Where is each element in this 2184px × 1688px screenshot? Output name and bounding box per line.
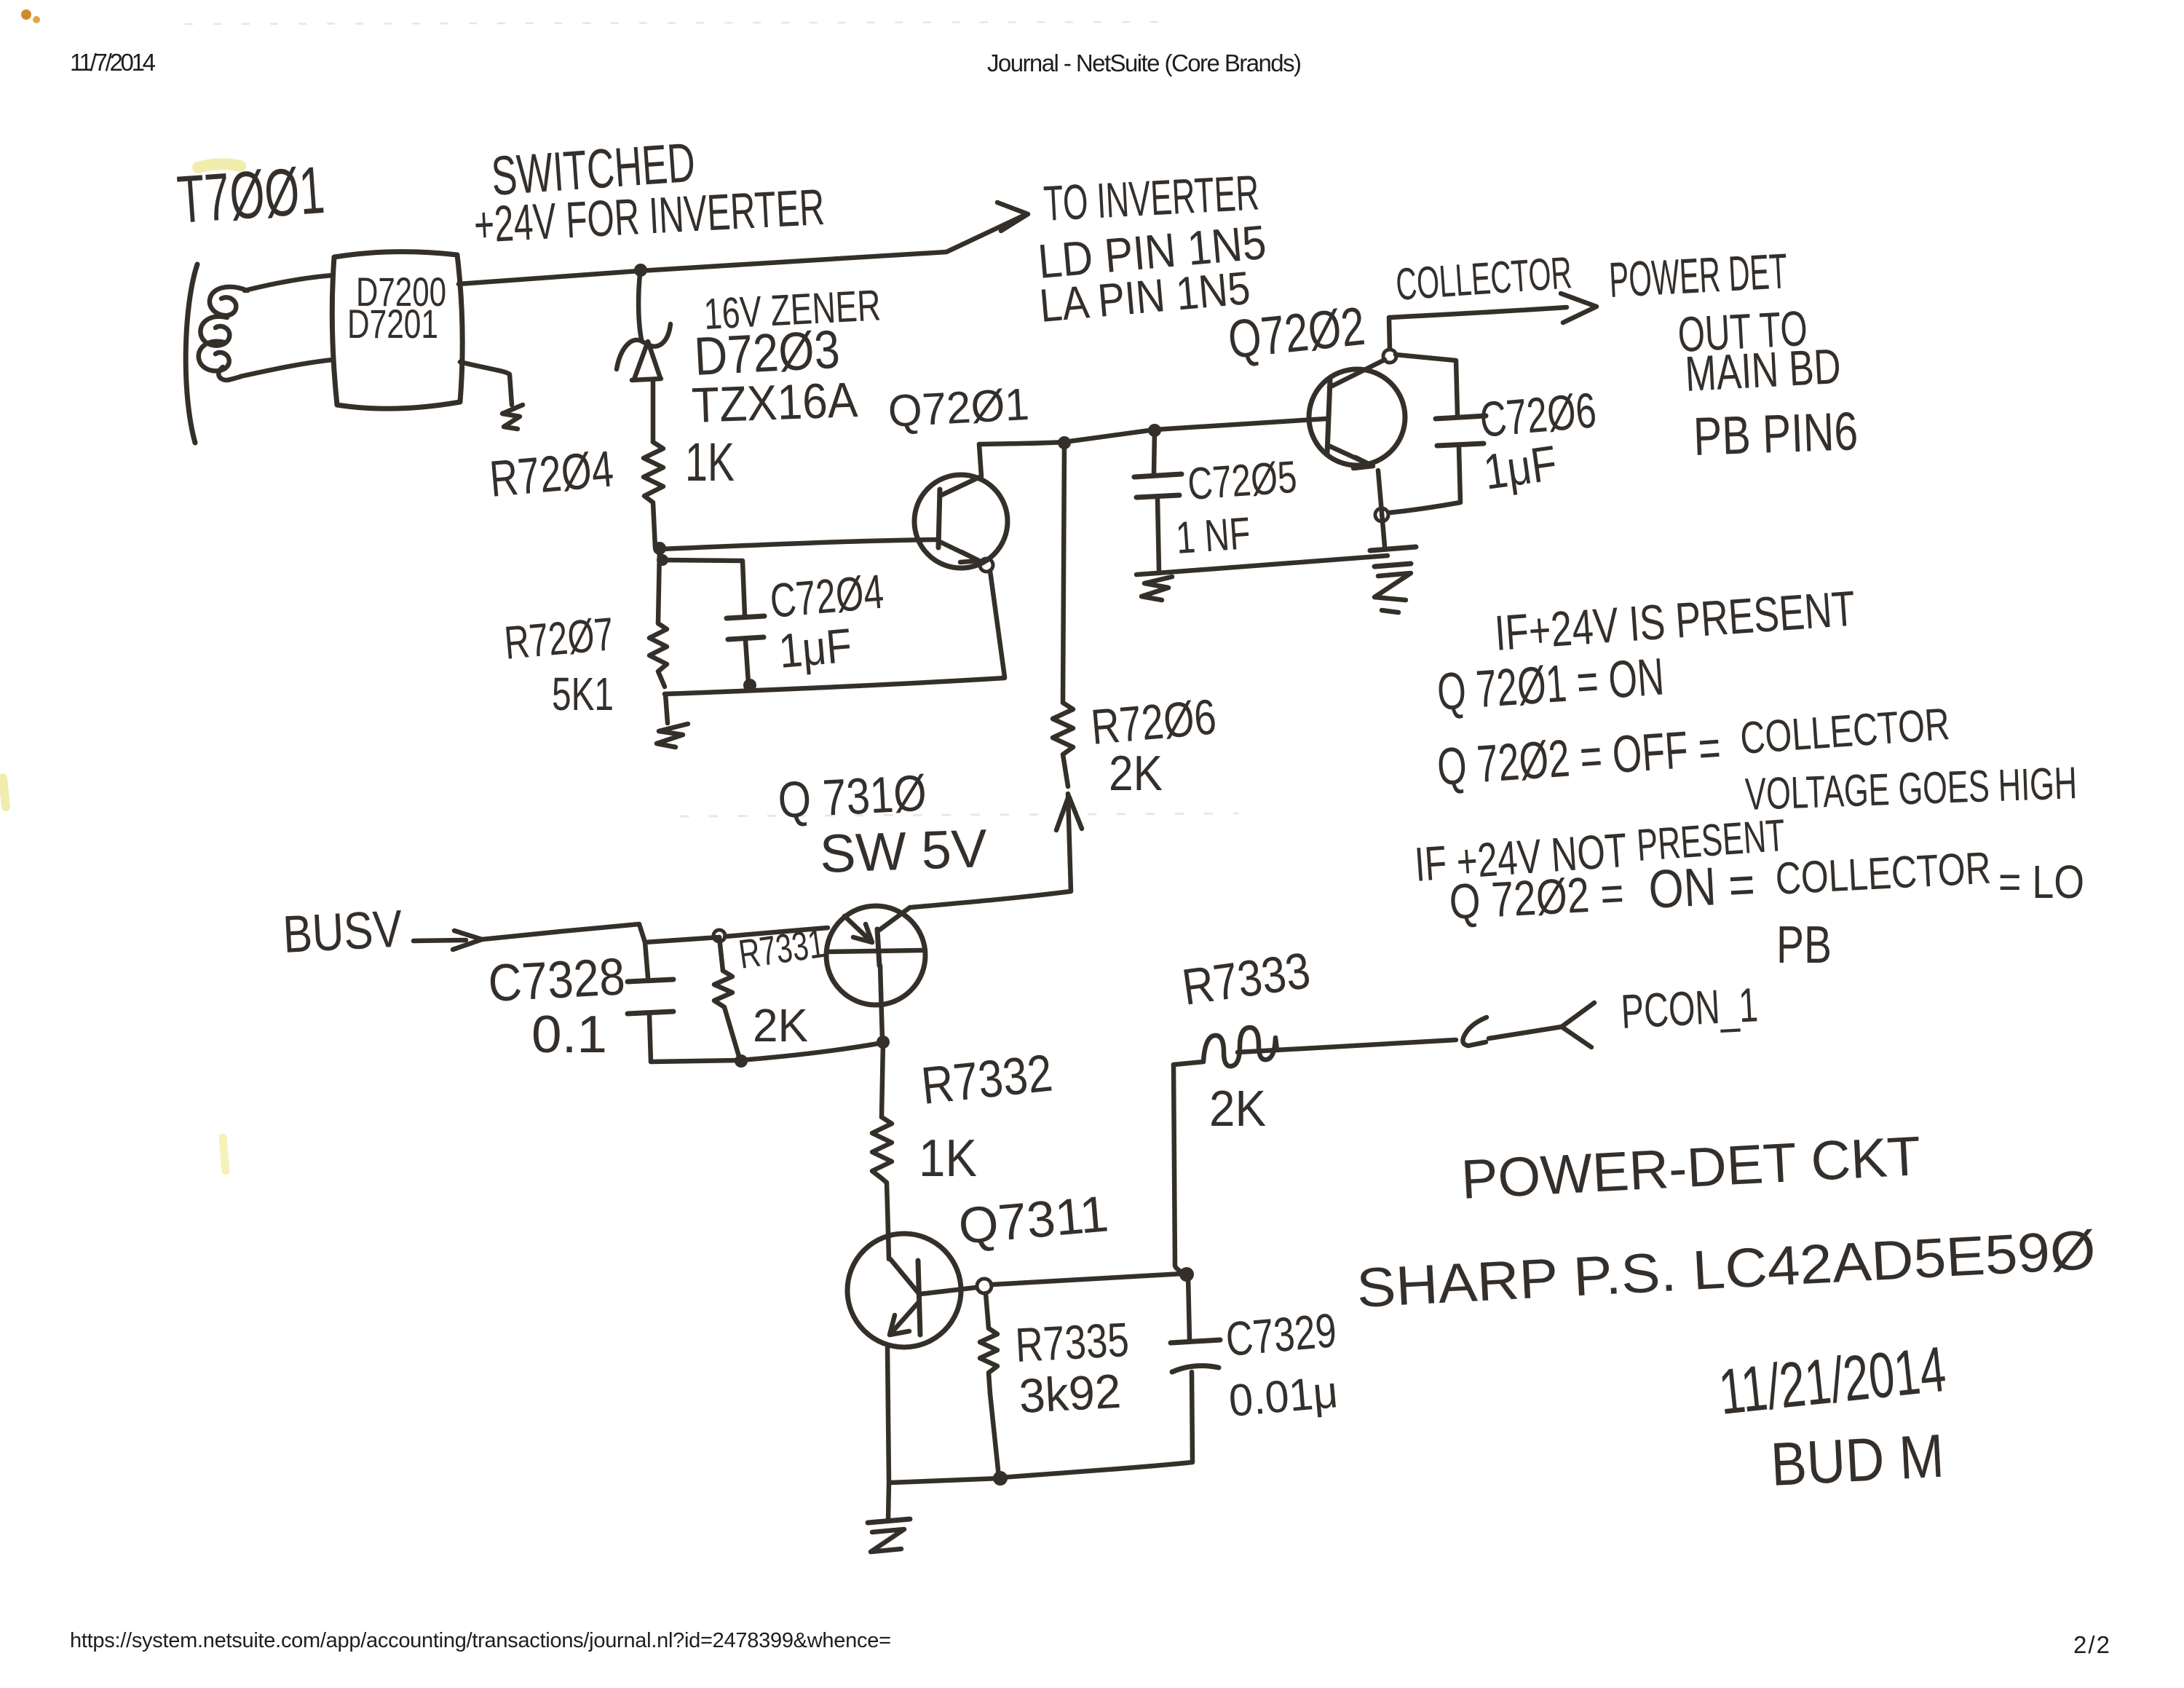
svg-text:1 NF: 1 NF — [1174, 508, 1252, 564]
transformer T7001 winding coil — [210, 287, 248, 315]
svg-text:Q 72Ø1 = ON: Q 72Ø1 = ON — [1436, 647, 1666, 722]
svg-text:POWER-DET CKT: POWER-DET CKT — [1460, 1125, 1923, 1211]
wire C7206 bottom to emitter — [1389, 447, 1460, 513]
transistor Q7202 body circle — [1309, 369, 1405, 465]
resistor R7332 zigzag — [872, 1117, 892, 1183]
wire node to R7207 — [658, 550, 660, 623]
svg-text:D7201: D7201 — [347, 301, 438, 347]
wire C7204 to bottom rail — [745, 640, 748, 683]
svg-text:T7ØØ1: T7ØØ1 — [175, 153, 327, 237]
svg-text:COLLECTOR: COLLECTOR — [1774, 843, 1992, 904]
svg-text:1μF: 1μF — [777, 618, 854, 678]
connector fork PCON_1 — [1562, 1003, 1594, 1047]
ground under Q7311 — [868, 1519, 910, 1523]
wire R7332 to Q7311 base — [887, 1183, 888, 1232]
transistor Q7310 base line — [828, 950, 922, 952]
resistor R7206 zigzag — [1053, 703, 1073, 786]
ground squiggle Q7311 — [871, 1529, 904, 1552]
capacitor C7328 plates — [628, 979, 673, 1014]
transistor Q7310 collector stroke — [879, 907, 910, 930]
wire Q7202 collector up and right — [1389, 307, 1567, 349]
svg-text:https://system.netsuite.com/ap: https://system.netsuite.com/app/accounti… — [70, 1629, 891, 1652]
wire Q7311 collector to R7333 junction — [992, 1274, 1183, 1285]
arrowhead BUSV — [453, 931, 482, 950]
node junction R7331 tap loop — [713, 930, 725, 942]
wire Q7311 emitter down — [887, 1348, 889, 1482]
node junction R7333 C7329 — [1179, 1267, 1194, 1282]
svg-text:BUSV: BUSV — [282, 900, 404, 964]
wire Q7202 emitter down — [1378, 470, 1385, 546]
svg-text:2K: 2K — [1209, 1080, 1266, 1137]
wire transformer top lead to diode block — [245, 275, 333, 291]
svg-text:11/21/2014: 11/21/2014 — [1716, 1333, 1950, 1428]
wire C7329 down and left — [1002, 1372, 1192, 1478]
wire R7331 stem — [719, 937, 723, 971]
svg-text:3k92: 3k92 — [1018, 1364, 1123, 1423]
highlighter smudge near T7001 — [198, 164, 240, 167]
wire C7205 ground rail — [1136, 556, 1388, 575]
wire to PCON connector — [1489, 1027, 1562, 1038]
zener diode D7203 anode triangle — [632, 342, 661, 380]
node junction R7206 tap — [1058, 436, 1071, 449]
transistor Q7201 collector stroke — [941, 444, 981, 495]
ground under R7207 — [657, 724, 688, 747]
transistor Q7201 base bar — [938, 489, 940, 548]
svg-text:11/7/2014: 11/7/2014 — [70, 49, 156, 76]
svg-text:TZX16A: TZX16A — [691, 372, 859, 433]
arrowhead collector to power det — [1561, 293, 1597, 323]
arrowhead up on R7206 wire — [1056, 796, 1082, 830]
transistor Q7202 emitter stroke with arrow — [1329, 446, 1373, 468]
transformer T7001 core arc — [186, 264, 197, 443]
zener diode D7203 cathode bar — [617, 324, 670, 369]
wire junction to Q7310 base — [725, 928, 828, 936]
svg-text:Q7311: Q7311 — [957, 1185, 1111, 1255]
wire BUSV input — [414, 940, 466, 941]
resistor R7204 zigzag — [644, 442, 663, 548]
resistor R7207 zigzag — [649, 623, 667, 687]
node Q7311 collector loop — [977, 1279, 992, 1293]
svg-text:C72Ø5: C72Ø5 — [1186, 452, 1298, 510]
wire zener to R7204 — [651, 381, 656, 442]
svg-text:R7333: R7333 — [1179, 942, 1313, 1016]
svg-text:COLLECTOR: COLLECTOR — [1394, 248, 1573, 310]
transistor Q7202 collector stroke — [1329, 360, 1385, 387]
scanner artifact orange specks top left — [21, 9, 40, 23]
transistor Q7202 base bar — [1327, 380, 1330, 454]
svg-text:Q72Ø1: Q72Ø1 — [887, 379, 1030, 437]
resistor R7333 zigzag horizontal — [1174, 1028, 1277, 1066]
wire R7206 to Q7310 collector corner — [911, 794, 1071, 907]
wire R7207 to ground — [665, 694, 668, 723]
svg-text:Q 72Ø2 =: Q 72Ø2 = — [1448, 866, 1626, 930]
node junction Q7310 emitter — [877, 1036, 890, 1049]
svg-text:IF+24V IS PRESENT: IF+24V IS PRESENT — [1493, 581, 1857, 661]
transistor Q7311 emitter stroke with arrow — [890, 1302, 919, 1335]
wire diode block to ground — [460, 362, 512, 405]
svg-text:1μF: 1μF — [1481, 435, 1561, 500]
capacitor C7329 plates — [1171, 1340, 1220, 1372]
svg-text:2/2: 2/2 — [2073, 1631, 2110, 1658]
capacitor C7204 plates — [727, 616, 764, 639]
wire emitter to ground — [888, 1483, 889, 1521]
arrowhead to inverter — [997, 202, 1028, 231]
capacitor C7206 plates — [1436, 416, 1486, 446]
wire C7328 to bottom rail — [649, 1015, 651, 1062]
wire C7205 to rail — [1158, 499, 1159, 571]
highlighter smudge left edge — [3, 778, 6, 807]
svg-text:PB: PB — [1776, 916, 1832, 974]
wire R7335 stem — [986, 1293, 989, 1328]
resistor R7335 zigzag — [980, 1328, 997, 1394]
transistor Q7311 collector stroke — [920, 1287, 976, 1294]
wire emitter junction to R7332 — [882, 1042, 883, 1117]
node Q7202 collector junction — [1383, 350, 1396, 363]
svg-text:1K: 1K — [919, 1129, 977, 1188]
resistor R7331 zigzag — [714, 971, 740, 1059]
transistor Q7310 emitter stroke with arrow — [844, 916, 872, 942]
wire R7206 branch down — [1063, 443, 1064, 703]
node junction +24V and zener — [634, 264, 647, 277]
transistor Q7310 base bar — [877, 929, 879, 966]
transistor Q7311 base entry — [888, 1232, 918, 1293]
transistor Q7310 body circle — [826, 906, 925, 1005]
ground under diode block — [502, 405, 523, 429]
capacitor C7205 plates — [1134, 474, 1182, 497]
svg-text:C7328: C7328 — [487, 947, 627, 1013]
wire Q7201 emitter to bottom rail — [990, 571, 1005, 677]
ground squiggle Q7202 — [1374, 573, 1411, 612]
svg-text:BUD M: BUD M — [1769, 1421, 1946, 1499]
wire switched +24V rail to inverter — [459, 216, 1022, 284]
svg-text:Q 731Ø: Q 731Ø — [777, 764, 928, 829]
transistor Q7311 bar — [918, 1261, 920, 1335]
wire R7333 vertical — [1174, 1065, 1187, 1274]
node Q7202 emitter junction loop — [1375, 508, 1388, 521]
wire C7329 stem — [1188, 1276, 1190, 1340]
node junction C7204 bottom — [743, 679, 756, 692]
svg-text:= LO: = LO — [1998, 856, 2084, 908]
svg-text:2K: 2K — [753, 999, 808, 1052]
svg-text:R7332: R7332 — [919, 1044, 1055, 1116]
node junction base of Q7201 — [653, 542, 666, 555]
wire transformer bottom lead to diode block — [240, 360, 333, 376]
connector squiggle on wire — [1463, 1017, 1487, 1046]
diode block D7200/D7201 box — [332, 252, 462, 409]
wire bottom rail C7328 R7331 — [651, 1043, 882, 1062]
svg-text:Journal - NetSuite (Core Brand: Journal - NetSuite (Core Brands) — [987, 50, 1302, 76]
node junction C7205 tap — [1148, 424, 1161, 437]
wire +24V node to zener D7203 — [638, 268, 641, 339]
wire corner to C7328 — [645, 942, 648, 977]
svg-text:SHARP P.S. LC42AD5E59Ø: SHARP P.S. LC42AD5E59Ø — [1355, 1219, 2097, 1320]
ground under C7205 rail — [1142, 577, 1172, 600]
svg-text:COLLECTOR: COLLECTOR — [1738, 699, 1951, 764]
wire node to Q7201 base — [661, 540, 938, 549]
wire Q7201 collector to Q7202 base — [979, 419, 1326, 444]
node junction R7335 bottom — [993, 1471, 1008, 1486]
svg-text:R7331: R7331 — [736, 920, 828, 977]
scanner artifact dotted line middle — [681, 813, 1238, 816]
wire R7333 to connector — [1238, 1040, 1456, 1052]
svg-text:2K: 2K — [1109, 746, 1163, 801]
highlighter smudge lower left — [223, 1137, 226, 1171]
svg-text:R72Ø4: R72Ø4 — [488, 440, 616, 508]
scanner artifact dotted line top — [186, 22, 1165, 24]
node junction R7331 bottom — [735, 1054, 748, 1068]
wire Q7310 emitter down — [880, 966, 882, 1040]
svg-text:C72Ø4: C72Ø4 — [768, 564, 886, 628]
svg-text:VOLTAGE GOES HIGH: VOLTAGE GOES HIGH — [1744, 758, 2078, 820]
svg-text:ON =: ON = — [1647, 853, 1756, 920]
wire R7335 to bottom rail — [990, 1394, 999, 1477]
svg-text:5K1: 5K1 — [552, 668, 614, 720]
transistor Q7311 body circle — [847, 1234, 961, 1347]
svg-text:C7329: C7329 — [1224, 1303, 1339, 1366]
svg-text:MAIN BD: MAIN BD — [1684, 339, 1843, 402]
svg-text:0.01μ: 0.01μ — [1227, 1367, 1340, 1427]
wire C7206 top from collector node — [1396, 355, 1457, 415]
ground under Q7202 emitter — [1370, 547, 1416, 567]
svg-text:1K: 1K — [685, 432, 735, 492]
transistor Q7201 body circle — [914, 475, 1008, 568]
svg-text:SW 5V: SW 5V — [819, 818, 989, 884]
svg-text:R7335: R7335 — [1014, 1312, 1131, 1372]
node junction C7204 top — [657, 554, 668, 566]
node emitter Q7201 loop — [980, 559, 993, 572]
wire bottom rail R7207 to Q7201 emitter — [665, 678, 1005, 694]
wire node to C7204 — [662, 560, 745, 615]
svg-text:R72Ø7: R72Ø7 — [502, 607, 616, 669]
svg-text:POWER DET: POWER DET — [1607, 243, 1789, 308]
wire bottom rail to emitter — [890, 1478, 1000, 1483]
svg-text:0.1: 0.1 — [531, 1006, 607, 1064]
svg-text:PCON_1: PCON_1 — [1620, 977, 1760, 1038]
svg-text:PB PIN6: PB PIN6 — [1693, 401, 1859, 467]
wire BUSV to C7328 corner — [482, 924, 719, 942]
wire C7205 tap down — [1154, 430, 1155, 473]
svg-text:Q 72Ø2 = OFF =: Q 72Ø2 = OFF = — [1436, 719, 1723, 797]
transistor Q7201 emitter stroke with arrow — [940, 542, 979, 562]
